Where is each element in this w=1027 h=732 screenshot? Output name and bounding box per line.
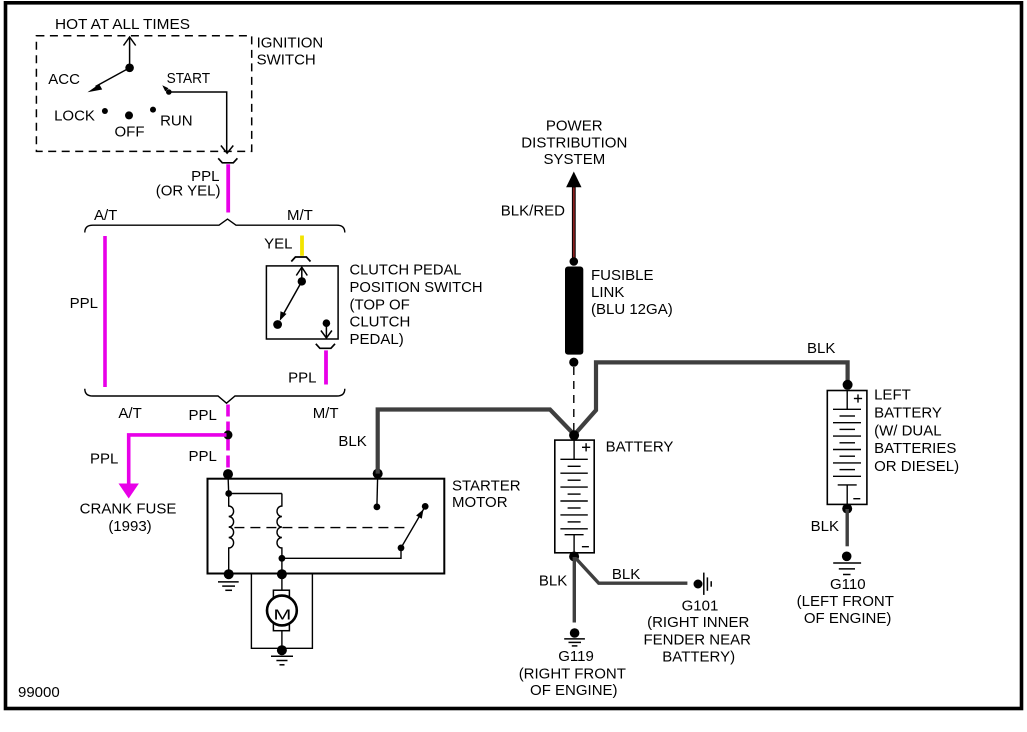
left battery negative stem [838,485,857,505]
wire PPL (OR YEL) magenta [226,164,230,212]
svg-text:M: M [273,607,291,624]
brace split A/T M/T (upper) [85,219,345,232]
battery plus sign [582,443,590,451]
svg-text:PEDAL): PEDAL) [350,331,404,348]
wire PPL below clutch switch magenta [324,350,328,384]
svg-text:(LEFT FRONT: (LEFT FRONT [797,593,894,610]
node battery negative [569,552,579,562]
coil L1 (hold-in winding) [229,494,234,574]
node battery positive junction [569,430,579,440]
ignition switch wiper pivot dot [125,64,134,73]
svg-text:BLK/RED: BLK/RED [501,203,565,220]
brace merge A/T M/T (lower) [85,389,345,404]
svg-text:OF ENGINE): OF ENGINE) [530,682,618,699]
connector below clutch switch [316,344,335,349]
svg-text:RUN: RUN [160,112,193,129]
svg-text:BLK: BLK [338,433,366,450]
svg-text:G119: G119 [558,648,594,665]
battery plates [560,459,587,529]
wire BLK left battery to G110 [846,509,849,546]
node left battery positive [843,380,853,390]
solenoid switch lever with arrow [401,506,425,548]
svg-text:BATTERY: BATTERY [606,439,674,456]
svg-text:LEFT: LEFT [874,387,911,404]
ignition switch wiper lever toward ACC [96,68,130,87]
motor brush frame [273,590,289,631]
contact START dot with wiper tick [166,89,172,95]
wire dashed fusible link to battery [573,367,575,431]
svg-text:99000: 99000 [18,684,60,701]
solenoid contact pivot dot [398,545,405,552]
svg-text:PPL: PPL [189,407,217,424]
node left battery negative [842,504,852,514]
connector above clutch pedal position switch [291,257,310,262]
svg-text:M/T: M/T [313,405,339,422]
left battery positive stem [846,391,848,410]
svg-text:BATTERIES: BATTERIES [874,440,956,457]
left battery case [827,391,867,505]
svg-text:POWER: POWER [546,118,603,135]
wire PPL to crank fuse magenta [129,435,227,484]
node fusible link top [570,257,579,266]
svg-text:CLUTCH: CLUTCH [350,314,411,331]
svg-text:A/T: A/T [118,405,141,422]
svg-text:FENDER NEAR: FENDER NEAR [643,631,751,648]
svg-text:STARTER: STARTER [452,478,521,495]
svg-text:OR DIESEL): OR DIESEL) [874,458,959,475]
node fusible link bottom [569,358,578,367]
svg-text:LINK: LINK [591,284,624,301]
svg-text:BATTERY: BATTERY [874,404,942,421]
svg-text:(RIGHT FRONT: (RIGHT FRONT [519,665,626,682]
ground G110 [842,552,852,562]
svg-text:(RIGHT INNER: (RIGHT INNER [647,614,749,631]
junction node PPL [224,430,233,439]
wire to motor [281,574,283,590]
wire BLK starter to battery (thick) [378,410,574,474]
svg-text:SWITCH: SWITCH [257,52,316,69]
contact LOCK dot [102,108,108,114]
junction node BLK at starter top [373,469,383,479]
svg-text:PPL: PPL [288,370,316,387]
svg-text:BATTERY): BATTERY) [662,649,735,666]
battery (main) case [555,440,594,553]
ground (starter hold-in coil) [218,582,239,590]
wire PPL A/T branch magenta [103,236,107,387]
clutch switch: arrow up to box top [296,267,307,281]
svg-text:HOT AT ALL TIMES: HOT AT ALL TIMES [55,16,190,33]
ground G101 stud [694,580,703,589]
starter motor box [208,479,445,574]
svg-text:G101: G101 [682,598,719,615]
motor housing [251,574,312,649]
svg-text:MOTOR: MOTOR [452,494,508,511]
node coil L2 to contact [279,555,286,562]
wire BLK battery to G101 [576,558,688,583]
connector below ignition switch [218,158,237,163]
wire motor to ground [281,631,283,651]
svg-text:(TOP OF: (TOP OF [350,296,410,313]
battery negative stem [565,535,584,553]
svg-text:PPL: PPL [70,295,98,312]
wire: START to ignition box bottom with arrow [171,92,234,153]
svg-text:PPL: PPL [90,451,118,468]
ground G119 [570,628,580,638]
clutch switch wiper pivot dot [298,277,306,285]
svg-text:A/T: A/T [94,207,117,224]
svg-text:DISTRIBUTION: DISTRIBUTION [521,134,627,151]
svg-text:START: START [167,70,211,87]
svg-text:YEL: YEL [264,236,292,253]
svg-text:LOCK: LOCK [54,108,95,125]
clutch switch contact dot (bottom left) [273,320,282,329]
solenoid lever top dot [422,503,429,510]
clutch pedal position switch box [266,266,338,339]
node motor ground [277,645,287,655]
wire BLK entry to contact [376,474,379,507]
svg-text:ACC: ACC [48,71,80,88]
svg-text:FUSIBLE: FUSIBLE [591,267,654,284]
svg-text:G110: G110 [830,576,866,593]
node motor feed [277,569,287,579]
svg-text:IGNITION: IGNITION [257,35,324,52]
wire YEL yellow [300,236,304,256]
wire PPL dashed to starter [226,405,230,473]
coil L2 (pull-in winding) [277,494,282,559]
svg-text:(BLU 12GA): (BLU 12GA) [591,301,673,318]
svg-text:POSITION SWITCH: POSITION SWITCH [350,279,483,296]
contact OFF dot [125,111,133,119]
wire: ignition feed arrow up to HOT AT ALL TIMES [124,37,136,68]
node solenoid coil tap [225,490,232,497]
wire L2 node to motor node [281,558,283,574]
svg-text:(OR YEL): (OR YEL) [156,182,221,199]
svg-text:OF ENGINE): OF ENGINE) [804,610,892,627]
svg-text:CLUTCH PEDAL: CLUTCH PEDAL [350,262,462,279]
wire inside starter from PPL entry [227,474,230,493]
clutch switch right contact dot with arrow down [323,319,331,327]
left battery minus sign [853,498,860,500]
svg-text:SYSTEM: SYSTEM [544,151,606,168]
svg-text:CRANK FUSE: CRANK FUSE [80,500,177,517]
wire BLK battery to left battery (thick) [575,362,848,434]
svg-text:PPL: PPL [189,448,217,465]
svg-text:BLK: BLK [539,573,567,590]
svg-text:OFF: OFF [115,124,145,141]
left battery plus sign [854,394,862,402]
solenoid fixed contact dot [374,504,381,511]
motor M1 circle [267,596,297,626]
solenoid linkage dashed [234,527,405,529]
wire BLK/RED [572,187,576,259]
arrow to power distribution system [566,172,581,188]
svg-text:(1993): (1993) [108,518,151,535]
battery positive stem [573,440,575,459]
fusible link F1 body [565,267,583,355]
left battery plates [833,409,861,476]
svg-text:M/T: M/T [287,207,313,224]
svg-text:BLK: BLK [612,566,640,583]
wire L2 node to solenoid contact [282,548,401,558]
node coil L1 ground [224,569,234,579]
clutch switch wiper lever [282,281,302,317]
ignition switch dashed box [36,36,251,152]
junction node at starter top (PPL entry) [223,469,233,479]
battery minus sign [582,546,589,548]
svg-text:(W/ DUAL: (W/ DUAL [874,422,942,439]
ground (starter motor) [271,656,293,665]
svg-text:BLK: BLK [807,340,835,357]
wire to pull-in coil [229,493,282,495]
wire BLK battery to G119 [573,557,576,623]
contact RUN dot [150,107,156,113]
svg-text:BLK: BLK [811,518,839,535]
